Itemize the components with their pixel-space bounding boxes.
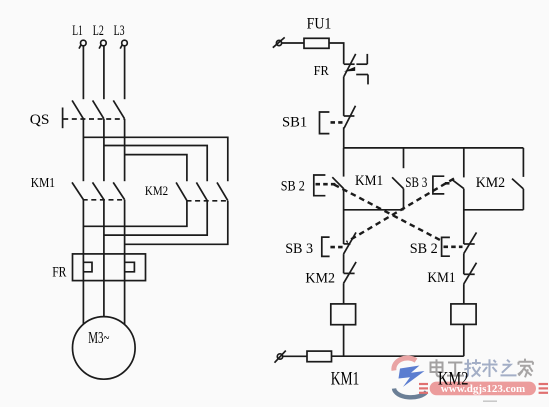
wire KM2 out pole2 merge to phase2 xyxy=(104,201,207,235)
wire L3 to QS xyxy=(124,46,126,99)
svg-text:SB 2: SB 2 xyxy=(410,241,438,257)
fuse FU1 xyxy=(304,38,329,48)
mechanical link SB2 to SB2nc dashed xyxy=(334,185,441,241)
svg-text:KM1: KM1 xyxy=(31,176,55,191)
watermark left bars xyxy=(419,384,428,393)
wire SB2 down through rail to SB3nc xyxy=(343,189,345,244)
watermark text ji xyxy=(464,359,481,376)
switch QS blade pole1 xyxy=(72,100,83,118)
wire KM1 aux branch from bus xyxy=(403,148,405,168)
button SB2 NO start-forward xyxy=(314,175,344,196)
watermark text shu xyxy=(482,359,498,377)
wire coil KM2 to bottom bus corner xyxy=(463,324,465,356)
svg-text:KM2: KM2 xyxy=(438,369,468,389)
FR heater element phase3 xyxy=(125,262,135,272)
wire terminal to FU1 xyxy=(282,42,304,44)
switch QS linkage dashed xyxy=(63,118,124,120)
svg-text:SB 2: SB 2 xyxy=(281,178,305,194)
watermark logo swirl xyxy=(394,358,427,397)
wire terminal to fuse FU2 xyxy=(283,355,307,357)
wire L1 to QS xyxy=(82,46,84,99)
wire bottom bus xyxy=(332,355,464,357)
coil KM2 xyxy=(451,304,476,325)
svg-text:FR: FR xyxy=(52,264,66,280)
svg-text:M3~: M3~ xyxy=(88,328,109,347)
contactor KM2 main blade pole2 xyxy=(196,182,207,200)
wire KM1 out phase2 down to motor xyxy=(103,200,105,317)
svg-text:L3: L3 xyxy=(114,23,125,39)
wire bus to SB2 xyxy=(343,148,345,177)
svg-text:FU1: FU1 xyxy=(307,16,332,33)
contact KM2 NC interlock xyxy=(343,262,356,284)
contactor KM2 main blade pole3 xyxy=(217,182,228,200)
button SB1 NC stop xyxy=(320,106,356,134)
switch QS blade pole2 xyxy=(93,100,104,118)
contactor KM1 main blade pole3 xyxy=(113,182,124,199)
svg-text:KM1: KM1 xyxy=(331,369,360,389)
node L1 terminal xyxy=(79,40,86,48)
wire KM1nc to coil KM2 xyxy=(463,284,465,304)
switch QS blade pole3 xyxy=(113,100,124,118)
svg-text:L2: L2 xyxy=(93,23,104,39)
coil KM1 xyxy=(331,304,356,325)
wire SB3 down through rail to SB2nc xyxy=(463,189,465,244)
watermark small dash xyxy=(483,400,497,402)
wire coil KM1 to bottom bus xyxy=(343,325,345,357)
watermark text gong xyxy=(447,363,464,376)
wire KM1 out phase3 down to motor xyxy=(124,200,126,325)
wire SB3nc to KM2nc xyxy=(343,254,345,273)
fuse FU2 xyxy=(307,351,332,362)
FR heater element phase1 xyxy=(83,262,92,272)
wire SB1 to top bus xyxy=(343,127,345,148)
button SB3 NO start-reverse xyxy=(433,176,464,194)
wire tap phase2 to KM2 middle pole xyxy=(104,146,207,182)
wire top bus xyxy=(344,147,524,149)
wire SB2nc to KM1nc xyxy=(463,254,465,275)
svg-text:SB 3: SB 3 xyxy=(285,241,313,257)
wire QS out phase1 down to KM1 xyxy=(82,119,84,181)
svg-text:L1: L1 xyxy=(72,23,83,39)
wire rail left xyxy=(344,209,404,211)
wire tap phase3 to KM2 left pole xyxy=(125,155,187,182)
watermark right bars xyxy=(539,384,548,393)
node L2 terminal xyxy=(99,40,106,48)
watermark text jia xyxy=(518,359,533,378)
wire KM1 out phase1 down to motor xyxy=(82,200,84,324)
svg-text:KM1: KM1 xyxy=(427,270,455,286)
wire bus to SB3 xyxy=(463,148,465,178)
mechanical link SB3 to SB3nc dashed xyxy=(347,179,455,243)
svg-text:KM1: KM1 xyxy=(355,173,383,189)
contactor KM2 main blade pole1 xyxy=(176,182,187,200)
thermal relay FR NC contact xyxy=(344,54,368,85)
wire rail right xyxy=(464,209,524,211)
contactor KM1 linkage dashed xyxy=(83,199,126,201)
wire KM1 aux to rail xyxy=(403,189,405,210)
contactor KM2 linkage dashed xyxy=(187,200,229,202)
node L3 terminal xyxy=(120,40,127,48)
contact KM2 auxiliary NO xyxy=(512,179,523,189)
wire KM2nc to coil KM1 xyxy=(343,284,345,304)
watermark red pill xyxy=(430,382,536,396)
svg-text:KM2: KM2 xyxy=(476,175,505,191)
button SB2 NC interlock lower-right xyxy=(442,232,477,256)
node control supply terminal bottom xyxy=(275,351,286,363)
thermal relay FR heater box xyxy=(73,254,146,281)
svg-text:QS: QS xyxy=(30,112,50,128)
wire KM2 aux to rail xyxy=(522,189,524,210)
svg-text:SB 3: SB 3 xyxy=(405,175,427,191)
svg-text:FR: FR xyxy=(314,64,330,79)
wire FR to SB1 xyxy=(343,77,345,116)
switch QS operating bar xyxy=(62,108,64,129)
svg-text:SB1: SB1 xyxy=(282,114,307,130)
watermark text zhi xyxy=(501,360,517,376)
contact KM1 NC interlock xyxy=(464,263,477,284)
wire tap phase1 to KM2 right pole xyxy=(83,137,227,181)
wire QS out phase3 down to KM1 xyxy=(124,119,126,181)
svg-text:KM2: KM2 xyxy=(305,271,335,287)
wire FU1 to corner xyxy=(329,43,344,64)
node control supply terminal top xyxy=(273,37,285,47)
wire KM2 aux branch from bus xyxy=(522,148,524,177)
svg-text:KM2: KM2 xyxy=(145,184,168,198)
motor M circle xyxy=(73,317,136,380)
wire KM2 out pole1 merge to phase1 xyxy=(83,201,186,227)
wire KM2 out pole3 merge to phase3 xyxy=(125,201,228,245)
wire QS out phase2 down to KM1 xyxy=(103,119,105,181)
contactor KM1 main blade pole2 xyxy=(93,182,104,199)
contactor KM1 main blade pole1 xyxy=(72,182,83,199)
contact KM1 auxiliary NO xyxy=(392,177,403,188)
button SB3 NC interlock lower-left xyxy=(322,232,356,256)
wire L2 to QS xyxy=(103,46,105,99)
watermark text dian xyxy=(431,359,445,376)
